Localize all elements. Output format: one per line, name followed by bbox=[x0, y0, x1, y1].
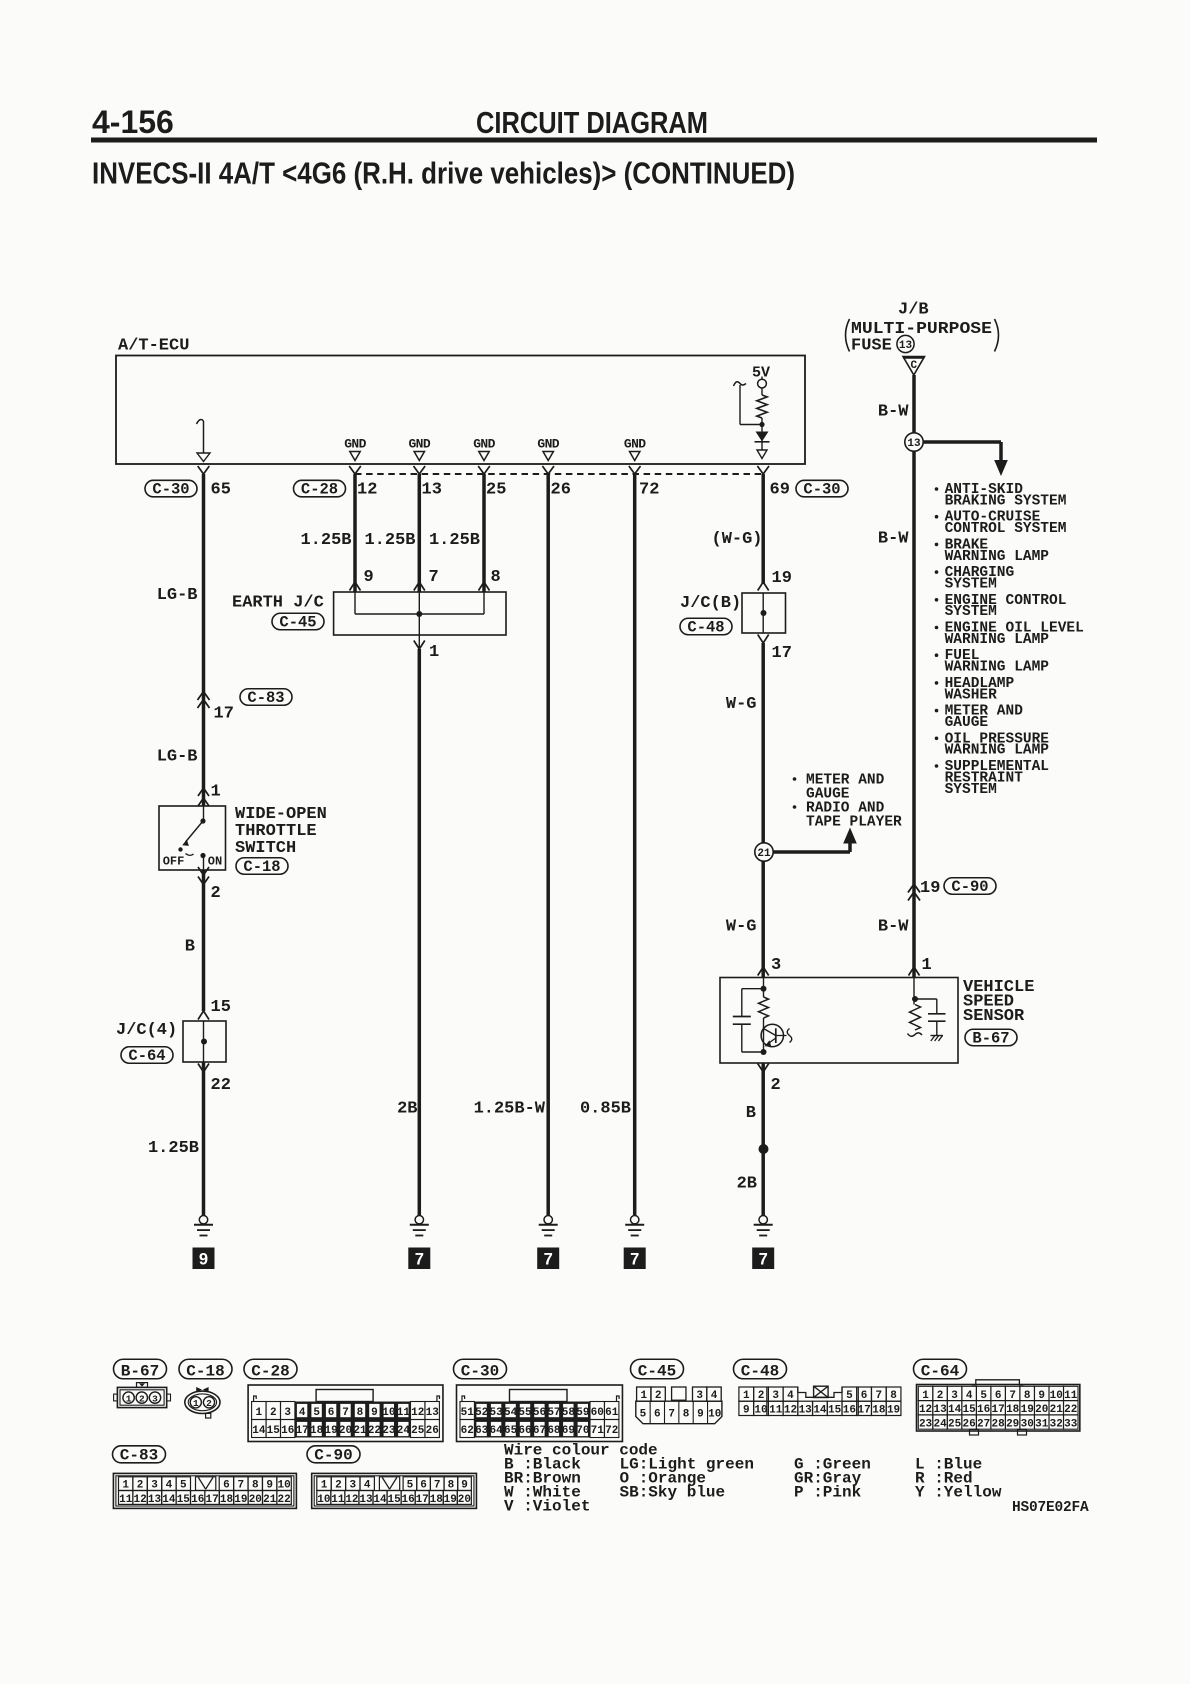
svg-text:A/T-ECU: A/T-ECU bbox=[118, 337, 189, 356]
svg-text:GND: GND bbox=[624, 437, 646, 452]
svg-text:1: 1 bbox=[429, 643, 439, 662]
svg-text:60: 60 bbox=[591, 1407, 604, 1419]
svg-text:GND: GND bbox=[473, 437, 495, 452]
svg-text:GND: GND bbox=[408, 437, 430, 452]
svg-text:13: 13 bbox=[148, 1494, 162, 1506]
svg-text:18: 18 bbox=[872, 1405, 886, 1417]
svg-text:SYSTEM: SYSTEM bbox=[945, 577, 997, 593]
svg-text:67: 67 bbox=[533, 1425, 546, 1437]
svg-text:16: 16 bbox=[977, 1404, 990, 1416]
svg-text:12: 12 bbox=[411, 1407, 424, 1419]
connector C-28 drawing bbox=[248, 1385, 443, 1442]
svg-text:19: 19 bbox=[920, 879, 940, 898]
svg-text:61: 61 bbox=[605, 1407, 619, 1419]
svg-text:2: 2 bbox=[937, 1390, 944, 1402]
svg-text:WARNING LAMP: WARNING LAMP bbox=[945, 549, 1050, 565]
svg-text:4: 4 bbox=[364, 1480, 371, 1492]
svg-text:2: 2 bbox=[655, 1390, 662, 1402]
svg-text:7: 7 bbox=[1009, 1390, 1016, 1402]
splice circle 13 bbox=[923, 440, 1001, 444]
svg-text:10: 10 bbox=[708, 1408, 721, 1420]
svg-text:56: 56 bbox=[533, 1407, 546, 1419]
svg-text:13: 13 bbox=[799, 1405, 813, 1417]
svg-text:1: 1 bbox=[122, 1480, 129, 1492]
svg-text:26: 26 bbox=[426, 1425, 439, 1437]
svg-text:16: 16 bbox=[843, 1405, 856, 1417]
svg-text:15: 15 bbox=[267, 1425, 281, 1437]
svg-text:14: 14 bbox=[813, 1405, 827, 1417]
svg-text:28: 28 bbox=[992, 1418, 1006, 1430]
svg-text:7: 7 bbox=[759, 1251, 768, 1269]
svg-text:3: 3 bbox=[151, 1480, 158, 1492]
connector label C-90 bbox=[944, 878, 996, 895]
destination system list bbox=[935, 487, 939, 491]
svg-text:71: 71 bbox=[591, 1425, 605, 1437]
svg-text:25: 25 bbox=[486, 481, 506, 500]
svg-text:22: 22 bbox=[368, 1425, 381, 1437]
svg-text:7: 7 bbox=[544, 1251, 553, 1269]
svg-text:J/B: J/B bbox=[898, 301, 929, 320]
capacitor C (left) bbox=[742, 988, 764, 990]
ECU pin terminal fork bbox=[198, 466, 210, 474]
ECU pin terminal fork bbox=[542, 466, 554, 474]
svg-text:13: 13 bbox=[426, 1407, 440, 1419]
ECU pin 65 internal output symbol bbox=[197, 420, 204, 424]
svg-text:TAPE PLAYER: TAPE PLAYER bbox=[806, 815, 902, 831]
svg-text:13: 13 bbox=[359, 1494, 373, 1506]
svg-text:15: 15 bbox=[177, 1494, 191, 1506]
svg-text:13: 13 bbox=[899, 340, 913, 352]
connector label C-45 bbox=[631, 1359, 684, 1379]
svg-text:33: 33 bbox=[1064, 1418, 1078, 1430]
svg-text:J/C(B): J/C(B) bbox=[680, 594, 741, 613]
svg-text:13: 13 bbox=[907, 438, 921, 450]
svg-text:31: 31 bbox=[1035, 1418, 1049, 1430]
svg-text:3: 3 bbox=[284, 1407, 291, 1419]
ECU pin terminal fork bbox=[349, 466, 361, 474]
ground point number box bbox=[408, 1248, 430, 1270]
wire W-G down to speed sensor bbox=[761, 643, 765, 977]
svg-text:5: 5 bbox=[846, 1390, 853, 1402]
svg-text:10: 10 bbox=[317, 1494, 330, 1506]
svg-text:70: 70 bbox=[576, 1425, 589, 1437]
svg-text:CONTROL SYSTEM: CONTROL SYSTEM bbox=[945, 521, 1067, 537]
svg-text:19: 19 bbox=[324, 1425, 337, 1437]
svg-text:4: 4 bbox=[299, 1407, 306, 1419]
svg-text:14: 14 bbox=[948, 1404, 962, 1416]
svg-text:21: 21 bbox=[1050, 1404, 1064, 1416]
connector C-18 drawing bbox=[185, 1391, 220, 1413]
svg-text:19: 19 bbox=[1021, 1404, 1034, 1416]
svg-text:LG-B: LG-B bbox=[157, 748, 198, 767]
svg-text:SWITCH: SWITCH bbox=[235, 839, 296, 858]
splice circle 21 bbox=[755, 843, 773, 861]
svg-text:10: 10 bbox=[754, 1405, 767, 1417]
svg-text:SENSOR: SENSOR bbox=[963, 1007, 1025, 1026]
splice dot bbox=[759, 1144, 769, 1154]
node junction bbox=[759, 422, 764, 427]
svg-text:W-G: W-G bbox=[726, 695, 757, 714]
svg-text:12: 12 bbox=[345, 1494, 358, 1506]
svg-text:17: 17 bbox=[858, 1405, 871, 1417]
header rule bbox=[91, 138, 1097, 143]
svg-text:FUSE: FUSE bbox=[851, 337, 892, 356]
svg-text:16: 16 bbox=[402, 1494, 415, 1506]
svg-text:17: 17 bbox=[214, 705, 234, 724]
svg-text:11: 11 bbox=[1064, 1390, 1078, 1402]
svg-text:7: 7 bbox=[630, 1251, 639, 1269]
ground bbox=[199, 1216, 207, 1224]
switch internals bbox=[203, 806, 205, 821]
svg-text:20: 20 bbox=[1035, 1404, 1048, 1416]
speed sensor entry pins 3 and 1 bbox=[758, 967, 769, 976]
svg-text:23: 23 bbox=[382, 1425, 396, 1437]
J/C(4) exit pin 22 bbox=[198, 1064, 209, 1073]
connector pass-through C-90 pin 19 bbox=[908, 884, 920, 893]
svg-text:68: 68 bbox=[547, 1425, 561, 1437]
svg-text:32: 32 bbox=[1050, 1418, 1063, 1430]
svg-text:8: 8 bbox=[491, 568, 501, 587]
svg-text:C-48: C-48 bbox=[687, 619, 724, 637]
svg-text:1: 1 bbox=[640, 1390, 647, 1402]
svg-text:1.25B: 1.25B bbox=[429, 531, 480, 550]
svg-text:WARNING LAMP: WARNING LAMP bbox=[945, 632, 1050, 648]
svg-text:66: 66 bbox=[518, 1425, 531, 1437]
svg-text:24: 24 bbox=[933, 1418, 947, 1430]
svg-text:9: 9 bbox=[371, 1407, 378, 1419]
J/C(B) exit pin 17 bbox=[758, 635, 769, 644]
wire 1.25B to ground bbox=[202, 1062, 206, 1216]
svg-text:11: 11 bbox=[397, 1407, 411, 1419]
connector label B-67 bbox=[965, 1029, 1017, 1046]
svg-text:4-156: 4-156 bbox=[92, 104, 174, 140]
svg-text:1: 1 bbox=[743, 1390, 750, 1402]
switch exit arrows pin 2 bbox=[198, 867, 209, 875]
svg-text:30: 30 bbox=[1021, 1418, 1034, 1430]
ground point number box bbox=[624, 1248, 646, 1270]
connector pass-through C-83 pin 17 bbox=[198, 692, 210, 701]
chassis ground (sensor case) bbox=[931, 1035, 944, 1037]
wire branch to hook bbox=[740, 424, 762, 426]
svg-text:29: 29 bbox=[1006, 1418, 1019, 1430]
svg-text:15: 15 bbox=[828, 1405, 842, 1417]
svg-text:59: 59 bbox=[576, 1407, 589, 1419]
connector label C-48 bbox=[680, 618, 732, 635]
svg-text:23: 23 bbox=[919, 1418, 933, 1430]
svg-text:5: 5 bbox=[980, 1390, 987, 1402]
connector C-30 drawing bbox=[457, 1385, 623, 1442]
sensor internal right: junction bbox=[913, 978, 915, 1005]
svg-text:7: 7 bbox=[434, 1480, 441, 1492]
svg-text:5: 5 bbox=[640, 1408, 647, 1420]
svg-text:8: 8 bbox=[1024, 1390, 1031, 1402]
svg-text:17: 17 bbox=[416, 1494, 429, 1506]
connector C-45 drawing bbox=[637, 1387, 651, 1401]
svg-text:5: 5 bbox=[180, 1480, 187, 1492]
svg-text:5: 5 bbox=[407, 1480, 414, 1492]
svg-text:4: 4 bbox=[787, 1390, 794, 1402]
svg-text:GND: GND bbox=[537, 437, 559, 452]
ground bbox=[631, 1216, 639, 1224]
svg-text:7: 7 bbox=[668, 1408, 675, 1420]
svg-text:1: 1 bbox=[211, 783, 221, 802]
svg-text:SB:Sky blue: SB:Sky blue bbox=[620, 1484, 726, 1502]
svg-text:8: 8 bbox=[252, 1480, 259, 1492]
resistor R (right) bbox=[910, 1005, 921, 1031]
svg-text:65: 65 bbox=[504, 1425, 518, 1437]
fuse number circle 13 bbox=[897, 335, 914, 352]
wire pin25 down to earth J/C pin8 bbox=[482, 474, 486, 592]
svg-text:17: 17 bbox=[992, 1404, 1005, 1416]
resistor R (pull-up) bbox=[757, 395, 767, 418]
svg-text:19: 19 bbox=[772, 569, 792, 588]
svg-text:53: 53 bbox=[490, 1407, 504, 1419]
svg-text:8: 8 bbox=[890, 1390, 897, 1402]
svg-text:C-90: C-90 bbox=[314, 1447, 352, 1465]
svg-text:C-48: C-48 bbox=[741, 1363, 779, 1381]
svg-text:22: 22 bbox=[211, 1076, 231, 1095]
svg-text:19: 19 bbox=[887, 1405, 900, 1417]
svg-text:6: 6 bbox=[995, 1390, 1002, 1402]
wire pin65 LG-B down to throttle switch bbox=[202, 474, 206, 806]
svg-text:1: 1 bbox=[126, 1393, 132, 1404]
svg-text:24: 24 bbox=[397, 1425, 411, 1437]
svg-text:B-W: B-W bbox=[878, 403, 909, 422]
svg-text:57: 57 bbox=[547, 1407, 560, 1419]
svg-text:9: 9 bbox=[1038, 1390, 1045, 1402]
svg-text:15: 15 bbox=[963, 1404, 977, 1416]
svg-text:C-64: C-64 bbox=[921, 1363, 960, 1381]
wire B to ground bbox=[761, 1063, 765, 1216]
svg-text:15: 15 bbox=[211, 998, 231, 1017]
svg-text:2: 2 bbox=[206, 1398, 212, 1409]
svg-text:C-18: C-18 bbox=[186, 1363, 224, 1381]
svg-text:LG-B: LG-B bbox=[157, 586, 198, 605]
svg-text:C-30: C-30 bbox=[803, 481, 840, 499]
svg-text:1: 1 bbox=[321, 1480, 328, 1492]
svg-text:BRAKING SYSTEM: BRAKING SYSTEM bbox=[945, 493, 1067, 509]
svg-text:SYSTEM: SYSTEM bbox=[945, 782, 997, 798]
svg-text:26: 26 bbox=[963, 1418, 976, 1430]
svg-text:1.25B: 1.25B bbox=[148, 1139, 199, 1158]
diode D (clamp) bbox=[756, 432, 769, 442]
connector label C-64 bbox=[914, 1359, 967, 1379]
svg-text:12: 12 bbox=[784, 1405, 797, 1417]
svg-text:OFF: OFF bbox=[163, 855, 185, 869]
svg-text:21: 21 bbox=[263, 1494, 277, 1506]
svg-text:1.25B: 1.25B bbox=[300, 531, 351, 550]
connector label C-18 bbox=[236, 858, 288, 875]
svg-text:18: 18 bbox=[430, 1494, 444, 1506]
svg-text:16: 16 bbox=[191, 1494, 204, 1506]
svg-text:CIRCUIT DIAGRAM: CIRCUIT DIAGRAM bbox=[476, 106, 708, 140]
svg-text:B-W: B-W bbox=[878, 530, 909, 549]
svg-text:62: 62 bbox=[461, 1425, 474, 1437]
svg-text:4: 4 bbox=[711, 1390, 718, 1402]
resistor R (left) bbox=[759, 997, 769, 1018]
svg-text:3: 3 bbox=[349, 1480, 356, 1492]
svg-text:HS07E02FA: HS07E02FA bbox=[1012, 1500, 1089, 1516]
svg-text:2: 2 bbox=[335, 1480, 342, 1492]
svg-text:2: 2 bbox=[139, 1393, 145, 1404]
ground bbox=[544, 1216, 552, 1224]
connector label C-83 bbox=[113, 1446, 166, 1463]
svg-text:69: 69 bbox=[562, 1425, 575, 1437]
connector C-48 drawing bbox=[739, 1401, 754, 1415]
wire B from switch to J/C(4) bbox=[202, 870, 206, 1011]
svg-text:20: 20 bbox=[249, 1494, 262, 1506]
svg-text:V :Violet: V :Violet bbox=[504, 1498, 590, 1516]
svg-text:7: 7 bbox=[415, 1251, 424, 1269]
connector label C-28 bbox=[294, 480, 346, 497]
tap arrow to meter and radio bbox=[793, 777, 797, 781]
svg-text:8: 8 bbox=[683, 1408, 690, 1420]
svg-text:4: 4 bbox=[966, 1390, 973, 1402]
svg-text:3: 3 bbox=[152, 1393, 158, 1404]
svg-text:C-30: C-30 bbox=[461, 1363, 499, 1381]
J/C(B) entry pin 19 bbox=[758, 582, 769, 591]
svg-text:14: 14 bbox=[252, 1425, 266, 1437]
connector label C-83 bbox=[240, 689, 292, 706]
svg-text:WARNING LAMP: WARNING LAMP bbox=[945, 660, 1050, 676]
svg-text:22: 22 bbox=[277, 1494, 290, 1506]
svg-text:1: 1 bbox=[922, 956, 932, 975]
svg-text:9: 9 bbox=[199, 1251, 208, 1269]
svg-text:26: 26 bbox=[551, 481, 571, 500]
svg-text:7: 7 bbox=[876, 1390, 883, 1402]
wire earth J/C out 2B down to ground bbox=[418, 649, 422, 1216]
connector label C-30 bbox=[454, 1359, 507, 1379]
svg-text:19: 19 bbox=[234, 1494, 247, 1506]
svg-text:SYSTEM: SYSTEM bbox=[945, 604, 997, 620]
svg-text:18: 18 bbox=[220, 1494, 234, 1506]
svg-text:25: 25 bbox=[411, 1425, 425, 1437]
svg-text:27: 27 bbox=[977, 1418, 990, 1430]
svg-text:5: 5 bbox=[313, 1407, 320, 1419]
svg-text:B-67: B-67 bbox=[972, 1030, 1009, 1048]
ground bbox=[759, 1216, 767, 1224]
svg-text:14: 14 bbox=[162, 1494, 176, 1506]
ECU pin terminal fork bbox=[629, 466, 641, 474]
svg-text:J/C(4): J/C(4) bbox=[116, 1021, 177, 1040]
svg-text:52: 52 bbox=[475, 1407, 488, 1419]
svg-text:2: 2 bbox=[771, 1076, 781, 1095]
ECU pin terminal fork bbox=[757, 466, 769, 474]
svg-text:7: 7 bbox=[429, 568, 439, 587]
svg-text:C-28: C-28 bbox=[251, 1363, 289, 1381]
svg-text:20: 20 bbox=[339, 1425, 352, 1437]
svg-text:11: 11 bbox=[769, 1405, 783, 1417]
transistor Q open-collector bbox=[763, 1018, 765, 1052]
svg-text:14: 14 bbox=[373, 1494, 387, 1506]
svg-text:58: 58 bbox=[562, 1407, 576, 1419]
svg-text:3: 3 bbox=[771, 956, 781, 975]
svg-text:10: 10 bbox=[1050, 1390, 1063, 1402]
connector label C-28 bbox=[244, 1359, 297, 1379]
svg-text:2: 2 bbox=[758, 1390, 765, 1402]
connector C-90 drawing bbox=[312, 1473, 477, 1508]
svg-text:6: 6 bbox=[223, 1480, 230, 1492]
svg-text:8: 8 bbox=[357, 1407, 364, 1419]
svg-text:17: 17 bbox=[296, 1425, 309, 1437]
svg-text:51: 51 bbox=[461, 1407, 475, 1419]
svg-text:B: B bbox=[746, 1104, 756, 1123]
svg-text:2: 2 bbox=[211, 884, 221, 903]
svg-text:9: 9 bbox=[743, 1405, 750, 1417]
svg-text:0.85B: 0.85B bbox=[580, 1100, 631, 1119]
svg-text:W-G: W-G bbox=[726, 918, 757, 937]
svg-text:C-90: C-90 bbox=[951, 878, 988, 896]
connector label C-30 bbox=[796, 480, 848, 497]
svg-text:11: 11 bbox=[119, 1494, 133, 1506]
svg-text:25: 25 bbox=[948, 1418, 962, 1430]
svg-text:2B: 2B bbox=[397, 1100, 417, 1119]
svg-text:WARNING LAMP: WARNING LAMP bbox=[945, 743, 1050, 759]
svg-text:9: 9 bbox=[266, 1480, 273, 1492]
svg-text:C-28: C-28 bbox=[301, 481, 338, 499]
svg-text:16: 16 bbox=[281, 1425, 294, 1437]
svg-text:10: 10 bbox=[382, 1407, 395, 1419]
ground point number box bbox=[752, 1248, 774, 1270]
vehicle speed sensor box B-67 bbox=[720, 978, 958, 1064]
svg-text:6: 6 bbox=[328, 1407, 335, 1419]
svg-text:6: 6 bbox=[654, 1408, 661, 1420]
svg-text:1: 1 bbox=[256, 1407, 263, 1419]
svg-text:P :Pink: P :Pink bbox=[794, 1484, 862, 1502]
earth J/C internal bus bbox=[354, 592, 356, 614]
svg-text:11: 11 bbox=[331, 1494, 345, 1506]
svg-text:C-83: C-83 bbox=[120, 1447, 158, 1465]
svg-text:15: 15 bbox=[387, 1494, 401, 1506]
svg-text:6: 6 bbox=[420, 1480, 427, 1492]
svg-text:B-W: B-W bbox=[878, 918, 909, 937]
ground bbox=[415, 1216, 423, 1224]
svg-text:63: 63 bbox=[475, 1425, 489, 1437]
svg-text:Y :Yellow: Y :Yellow bbox=[915, 1484, 1002, 1502]
J/B output terminal triangle C bbox=[903, 357, 925, 376]
svg-text:C: C bbox=[910, 360, 917, 372]
connector label B-67 bbox=[114, 1359, 167, 1379]
svg-text:18: 18 bbox=[1006, 1404, 1020, 1416]
svg-text:72: 72 bbox=[639, 481, 659, 500]
svg-text:7: 7 bbox=[238, 1480, 245, 1492]
svg-text:B-67: B-67 bbox=[121, 1363, 159, 1381]
svg-text:19: 19 bbox=[444, 1494, 457, 1506]
svg-text:C-30: C-30 bbox=[152, 481, 189, 499]
svg-text:1: 1 bbox=[922, 1390, 929, 1402]
sensor internal: junction bbox=[763, 978, 765, 998]
connector B-67 drawing bbox=[117, 1387, 166, 1407]
svg-text:12: 12 bbox=[133, 1494, 146, 1506]
earth junction arrows pins 9,7,8 bbox=[350, 582, 361, 591]
svg-text:GND: GND bbox=[344, 437, 366, 452]
svg-text:3: 3 bbox=[696, 1390, 703, 1402]
connector C-64 drawing bbox=[917, 1385, 1080, 1432]
svg-text:C-64: C-64 bbox=[128, 1047, 165, 1065]
svg-text:2: 2 bbox=[270, 1407, 277, 1419]
svg-text:C-45: C-45 bbox=[279, 614, 316, 632]
svg-text:4: 4 bbox=[166, 1480, 173, 1492]
svg-text:65: 65 bbox=[211, 481, 231, 500]
svg-text:64: 64 bbox=[490, 1425, 504, 1437]
svg-text:C-45: C-45 bbox=[638, 1363, 676, 1381]
connector label C-45 bbox=[272, 613, 324, 630]
svg-text:13: 13 bbox=[933, 1404, 947, 1416]
svg-text:21: 21 bbox=[353, 1425, 367, 1437]
svg-text:9: 9 bbox=[697, 1408, 704, 1420]
svg-text:12: 12 bbox=[919, 1404, 932, 1416]
svg-text:C-83: C-83 bbox=[247, 689, 284, 707]
